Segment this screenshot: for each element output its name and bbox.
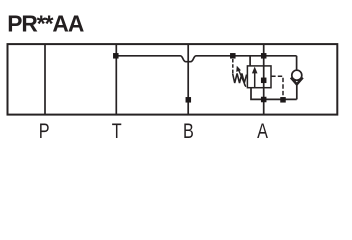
svg-text:A: A <box>257 119 268 142</box>
svg-text:P: P <box>39 119 50 142</box>
svg-text:T: T <box>112 119 122 142</box>
svg-text:B: B <box>183 119 194 142</box>
svg-text:PR**AA: PR**AA <box>7 11 84 37</box>
